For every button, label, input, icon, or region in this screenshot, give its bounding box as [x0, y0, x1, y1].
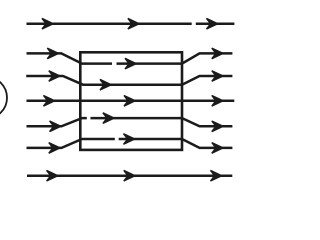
arrowhead line 6 c	[212, 143, 223, 154]
arrowhead line 5 a	[50, 121, 61, 132]
arrowhead line 3 b	[100, 79, 111, 90]
arrowhead line 3 a	[49, 71, 60, 82]
arrowhead line 5 b	[103, 113, 114, 124]
arrowhead line 2 c	[212, 48, 223, 59]
arrowhead line 5 c	[212, 121, 223, 132]
arrowhead line 7 c	[211, 170, 222, 181]
permeable slab box	[80, 52, 182, 150]
field line 4 (middle, straight)	[27, 100, 235, 103]
circled label arc (cropped at left edge)	[0, 77, 7, 119]
gap in line 6 interior	[115, 137, 119, 141]
arrowhead line 1 c	[207, 18, 218, 29]
arrowhead line 6 a	[49, 143, 60, 154]
field line 5 (bends into slab)	[27, 118, 233, 126]
arrowhead line 4 b	[124, 96, 135, 107]
arrowhead line 7 b	[124, 170, 135, 181]
gap in line 1	[192, 22, 196, 26]
field line 7 (bottom, straight)	[27, 174, 232, 177]
field line 2 (bends into slab)	[27, 53, 233, 63]
arrowhead line 2 a	[47, 48, 58, 59]
arrowhead line 4 c	[212, 96, 223, 107]
arrowhead line 2 b	[125, 58, 136, 69]
gap in line 5 interior	[87, 116, 91, 120]
arrowhead line 1 a	[42, 18, 53, 29]
arrowhead line 3 c	[212, 71, 223, 82]
field line 1 (top, straight)	[27, 22, 235, 25]
field line 6 (bends into slab)	[27, 139, 233, 148]
field line 3 (bends into slab)	[26, 76, 232, 85]
arrowhead line 1 b	[128, 18, 139, 29]
gap in line 2 interior	[112, 61, 117, 65]
arrowhead line 7 a	[47, 170, 58, 181]
arrowhead line 4 a	[44, 96, 55, 107]
arrowhead line 6 b	[124, 134, 135, 145]
